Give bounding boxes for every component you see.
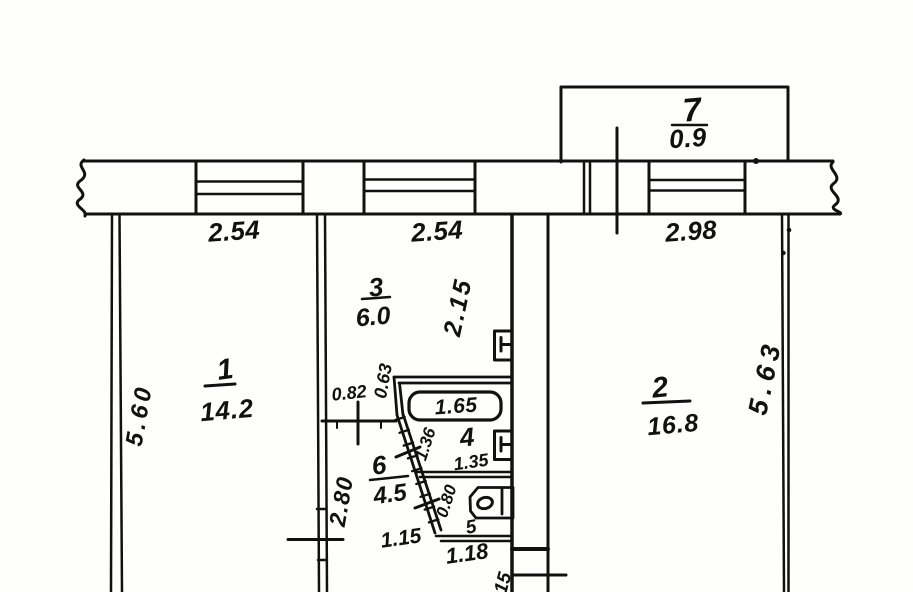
dimension end stub left	[336, 422, 338, 428]
svg-text:2.54: 2.54	[409, 214, 464, 248]
svg-text:2.54: 2.54	[206, 214, 261, 248]
room 7 fraction line	[672, 124, 707, 127]
wall: room 1 left wall	[111, 215, 122, 592]
room 1 underline	[205, 384, 235, 386]
slant hatch ticks	[395, 417, 438, 522]
wall connector bottom	[512, 547, 548, 551]
bathroom left edge double line	[394, 377, 403, 415]
room 3 underline	[362, 297, 390, 299]
window W1 left jamb	[195, 161, 198, 214]
wall break symbol right	[831, 162, 841, 214]
svg-text:0.9: 0.9	[668, 122, 708, 155]
window W3 left jamb	[648, 162, 651, 214]
window W2 glazing lines	[364, 180, 475, 192]
window W1 glazing lines	[196, 182, 303, 195]
partition crossbar upper	[317, 508, 326, 511]
svg-text:1.65: 1.65	[434, 394, 478, 420]
wall: room1/room3 partition	[317, 215, 327, 592]
toilet	[470, 488, 513, 519]
svg-text:6.0: 6.0	[355, 302, 392, 333]
dimension long tick on slant upper	[396, 447, 420, 457]
svg-text:0.82: 0.82	[331, 381, 368, 405]
vent symbol box upper	[495, 331, 513, 360]
dimension end stub right	[380, 422, 382, 428]
dimension long tick on slant lower	[415, 499, 439, 508]
dimension tick 2.80	[288, 538, 343, 541]
window W1 right jamb	[302, 161, 305, 214]
wall: room 2 left wall	[547, 215, 550, 592]
window W3 right jamb	[744, 162, 747, 214]
svg-text:16.8: 16.8	[646, 409, 700, 441]
svg-text:14.2: 14.2	[199, 393, 255, 428]
svg-text:2.98: 2.98	[663, 214, 718, 248]
window W2 left jamb	[363, 161, 366, 214]
balcony door tick	[616, 128, 619, 233]
ink dot on band	[753, 158, 759, 164]
window W3 glazing lines	[649, 180, 745, 191]
vent symbol box lower	[495, 431, 513, 460]
svg-text:4.5: 4.5	[371, 479, 409, 511]
toilet bowl oval	[476, 496, 493, 511]
balcony door jamb pair	[584, 162, 590, 214]
dimension cross vertical	[357, 402, 360, 444]
hatched slanted wall	[397, 414, 441, 533]
wall: room 2 right wall	[782, 215, 789, 592]
wall: top exterior band top line	[84, 160, 833, 163]
wall: hall right wall	[510, 215, 514, 592]
wall break symbol left	[77, 160, 85, 216]
bathroom top edge double line	[394, 377, 512, 383]
bath/toilet partition double line	[416, 472, 512, 477]
toilet tank divider	[501, 489, 504, 514]
vent symbol T lower	[501, 438, 512, 452]
wall: top exterior band bottom line	[85, 213, 840, 216]
room 2 underline	[643, 401, 690, 403]
svg-text:2: 2	[649, 371, 669, 405]
ink blob on right wall	[787, 228, 792, 233]
balcony outline room 7	[561, 87, 788, 162]
dimension tick bottom	[512, 574, 566, 577]
dimension cross 0.82/0.63 horizontal	[322, 420, 396, 423]
bathtub	[409, 392, 501, 420]
window W2 right jamb	[474, 161, 477, 214]
vent symbol T upper	[501, 338, 512, 352]
room 6 underline	[370, 476, 408, 480]
partition crossbar lower	[318, 559, 327, 562]
toilet room bottom double line	[436, 536, 512, 541]
